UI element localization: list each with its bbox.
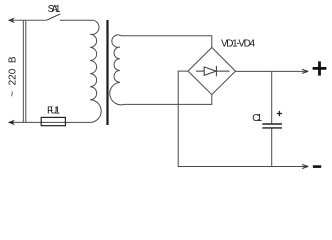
capacitor branch wire upper — [271, 71, 273, 123]
input arrow bottom (mains terminal) — [8, 120, 15, 126]
mains cord double line — [23, 20, 26, 122]
minus sign output — [313, 165, 321, 168]
diode symbol inside bridge — [196, 70, 230, 72]
bridge rectifier diamond VD1-VD4 — [188, 48, 236, 95]
transformer secondary winding + wires to bridge — [110, 35, 212, 105]
output arrow + — [302, 69, 308, 73]
capacitor branch wire lower — [271, 129, 273, 167]
svg-text:SA1: SA1 — [48, 4, 61, 15]
wire bridge left vertex to bottom rail — [178, 71, 307, 166]
capacitor polarity plus — [277, 111, 282, 116]
wire + transformer primary winding — [9, 20, 102, 122]
svg-text:VD1-VD4: VD1-VD4 — [221, 38, 255, 49]
fuse FU1 — [41, 117, 65, 125]
wire bridge right vertex to + output — [236, 70, 308, 72]
svg-text:FU1: FU1 — [47, 105, 60, 116]
plus sign output — [313, 61, 327, 75]
svg-text:~ 220 В: ~ 220 В — [8, 56, 19, 97]
input arrow top (mains terminal) — [8, 18, 15, 24]
transformer core — [106, 20, 108, 125]
output arrow - — [302, 165, 308, 169]
wire top-left — [9, 19, 47, 21]
switch SA1 blade — [47, 14, 61, 20]
capacitor C1 plates — [262, 124, 282, 128]
svg-text:C1: C1 — [252, 113, 262, 124]
